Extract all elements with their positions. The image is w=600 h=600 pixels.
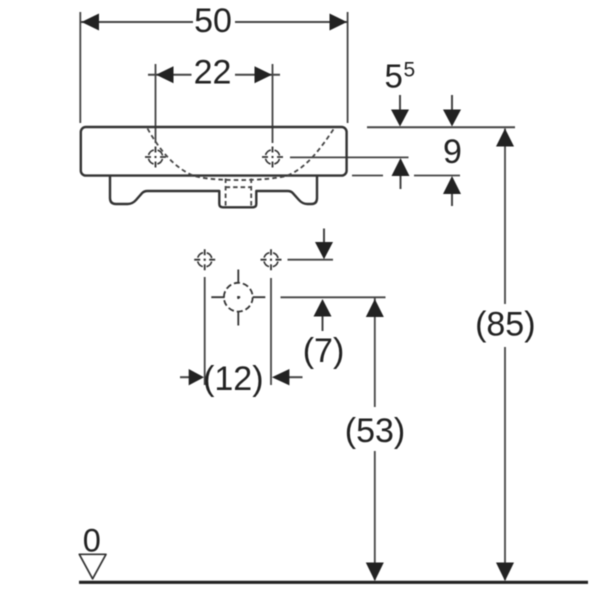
svg-text:0: 0: [83, 523, 101, 559]
svg-text:5: 5: [385, 58, 403, 95]
svg-text:(85): (85): [475, 306, 535, 344]
svg-text:9: 9: [443, 133, 462, 171]
svg-text:5: 5: [404, 59, 416, 82]
svg-text:(12): (12): [203, 360, 263, 398]
svg-text:(7): (7): [303, 332, 345, 370]
svg-text:(53): (53): [345, 412, 405, 450]
svg-text:22: 22: [194, 54, 232, 92]
svg-text:50: 50: [194, 2, 232, 40]
